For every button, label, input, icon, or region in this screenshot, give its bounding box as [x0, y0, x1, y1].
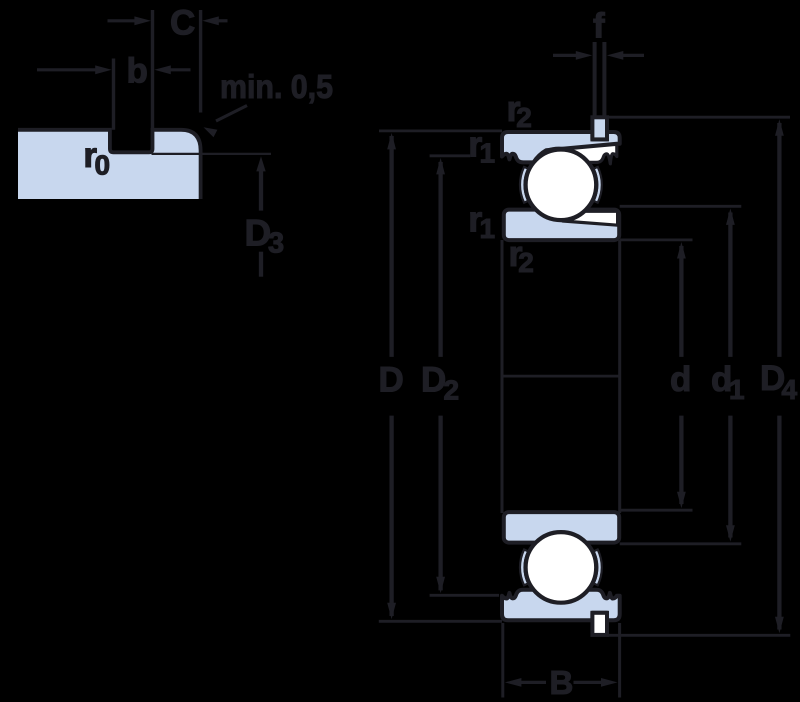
snap ring (bottom section, white) — [592, 613, 607, 635]
raceway crescent left of ball (top section) — [520, 167, 528, 203]
extension line B right — [618, 623, 621, 698]
outer ring (top section) — [502, 132, 620, 162]
label d — [670, 360, 691, 399]
extension line for b at groove left wall — [112, 59, 115, 130]
inner ring (bottom section) — [504, 512, 619, 543]
extension line B left — [501, 623, 504, 698]
label min. 0,5 with leader arrow to corner radius — [204, 68, 334, 138]
svg-text:1: 1 — [729, 374, 745, 405]
dimension f arrows — [553, 51, 644, 60]
label b — [127, 51, 148, 90]
label f — [593, 7, 605, 46]
extension line D4 bottom — [607, 634, 791, 637]
svg-text:C: C — [170, 4, 195, 43]
bearing axis centerline — [502, 375, 620, 378]
extension line d top — [620, 238, 693, 241]
label r2 at outer ring top corner — [507, 88, 532, 133]
dimension line D with arrows — [387, 133, 396, 619]
svg-text:2: 2 — [444, 374, 460, 405]
inner ring (top section) — [504, 210, 619, 241]
label B — [550, 664, 574, 701]
label D3 — [245, 213, 285, 260]
dimension line d with arrows — [677, 242, 686, 508]
extension line D bottom — [379, 620, 502, 623]
bearing left face silhouette line — [501, 240, 504, 513]
extension lines f (snap ring width) — [595, 42, 605, 117]
bottom bearing section (mirrored) — [502, 512, 620, 635]
extension line for C at ring side face — [199, 10, 202, 113]
dimension B arrows — [505, 678, 618, 687]
svg-text:1: 1 — [480, 213, 496, 244]
ball (top section) — [526, 150, 597, 221]
outer ring (bottom section) — [502, 590, 620, 620]
label r0 in groove detail — [83, 136, 110, 181]
dimension line D2 with arrows — [436, 158, 445, 593]
extension line D2 bottom — [430, 594, 499, 597]
label D4 — [760, 359, 798, 405]
dimension line d1 with arrows — [726, 208, 735, 541]
raceway crescent right of ball (bottom section) — [594, 550, 602, 586]
extension line D4 top — [607, 116, 790, 119]
label r1 at outer ring recess corner — [468, 124, 495, 169]
svg-text:1: 1 — [480, 138, 496, 169]
raceway crescent left of ball (bottom section) — [520, 550, 528, 586]
label r2 at inner ring bottom corner — [509, 233, 534, 278]
label d1 — [711, 360, 745, 405]
svg-text:min. 0,5: min. 0,5 — [220, 68, 333, 105]
groove-bottom diameter reference line (D3 level) — [152, 153, 272, 155]
svg-text:D: D — [421, 360, 446, 399]
bearing right face silhouette line — [618, 240, 621, 513]
svg-text:B: B — [550, 664, 574, 701]
extension line D2 top — [430, 154, 471, 157]
dimension b arrows — [37, 65, 191, 74]
svg-text:b: b — [127, 51, 148, 90]
snap-ring groove detail: ring cross-section body — [18, 130, 201, 199]
snap ring (top section) — [592, 117, 607, 139]
cage upper strip (top section, white wedge) — [546, 144, 617, 164]
svg-text:d: d — [670, 360, 691, 399]
svg-text:0: 0 — [95, 149, 111, 180]
dimension C arrows — [108, 16, 228, 25]
label C — [170, 4, 195, 43]
svg-text:2: 2 — [516, 102, 532, 133]
svg-text:D: D — [379, 360, 404, 399]
raceway crescent right of ball (top section) — [594, 167, 602, 203]
extension line d bottom — [620, 509, 693, 512]
extension line d1 top — [620, 205, 742, 208]
cage lower strip (top section, white wedge) — [563, 211, 618, 225]
svg-text:3: 3 — [268, 228, 284, 260]
extension line for C and b at groove right wall — [151, 10, 154, 130]
label r1 at inner ring top corner — [468, 199, 495, 244]
extension line d1 bottom — [620, 542, 742, 545]
svg-text:4: 4 — [782, 374, 798, 405]
svg-text:2: 2 — [518, 247, 534, 278]
svg-text:f: f — [593, 7, 605, 46]
label D — [379, 360, 404, 399]
ball (bottom section) — [526, 532, 597, 603]
extension line D top — [379, 129, 502, 132]
dimension line D4 with arrows — [775, 119, 784, 633]
label D2 — [421, 360, 459, 405]
dimension D3 arrow and line — [256, 156, 265, 276]
